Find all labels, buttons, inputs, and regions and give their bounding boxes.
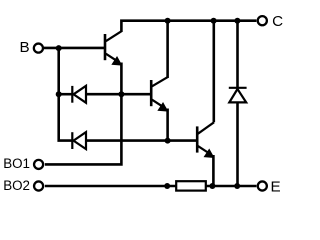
svg-text:B: B <box>20 39 30 56</box>
svg-text:BO2: BO2 <box>3 178 30 193</box>
svg-text:C: C <box>272 13 283 30</box>
svg-text:E: E <box>271 178 281 195</box>
svg-text:BO1: BO1 <box>3 156 30 171</box>
